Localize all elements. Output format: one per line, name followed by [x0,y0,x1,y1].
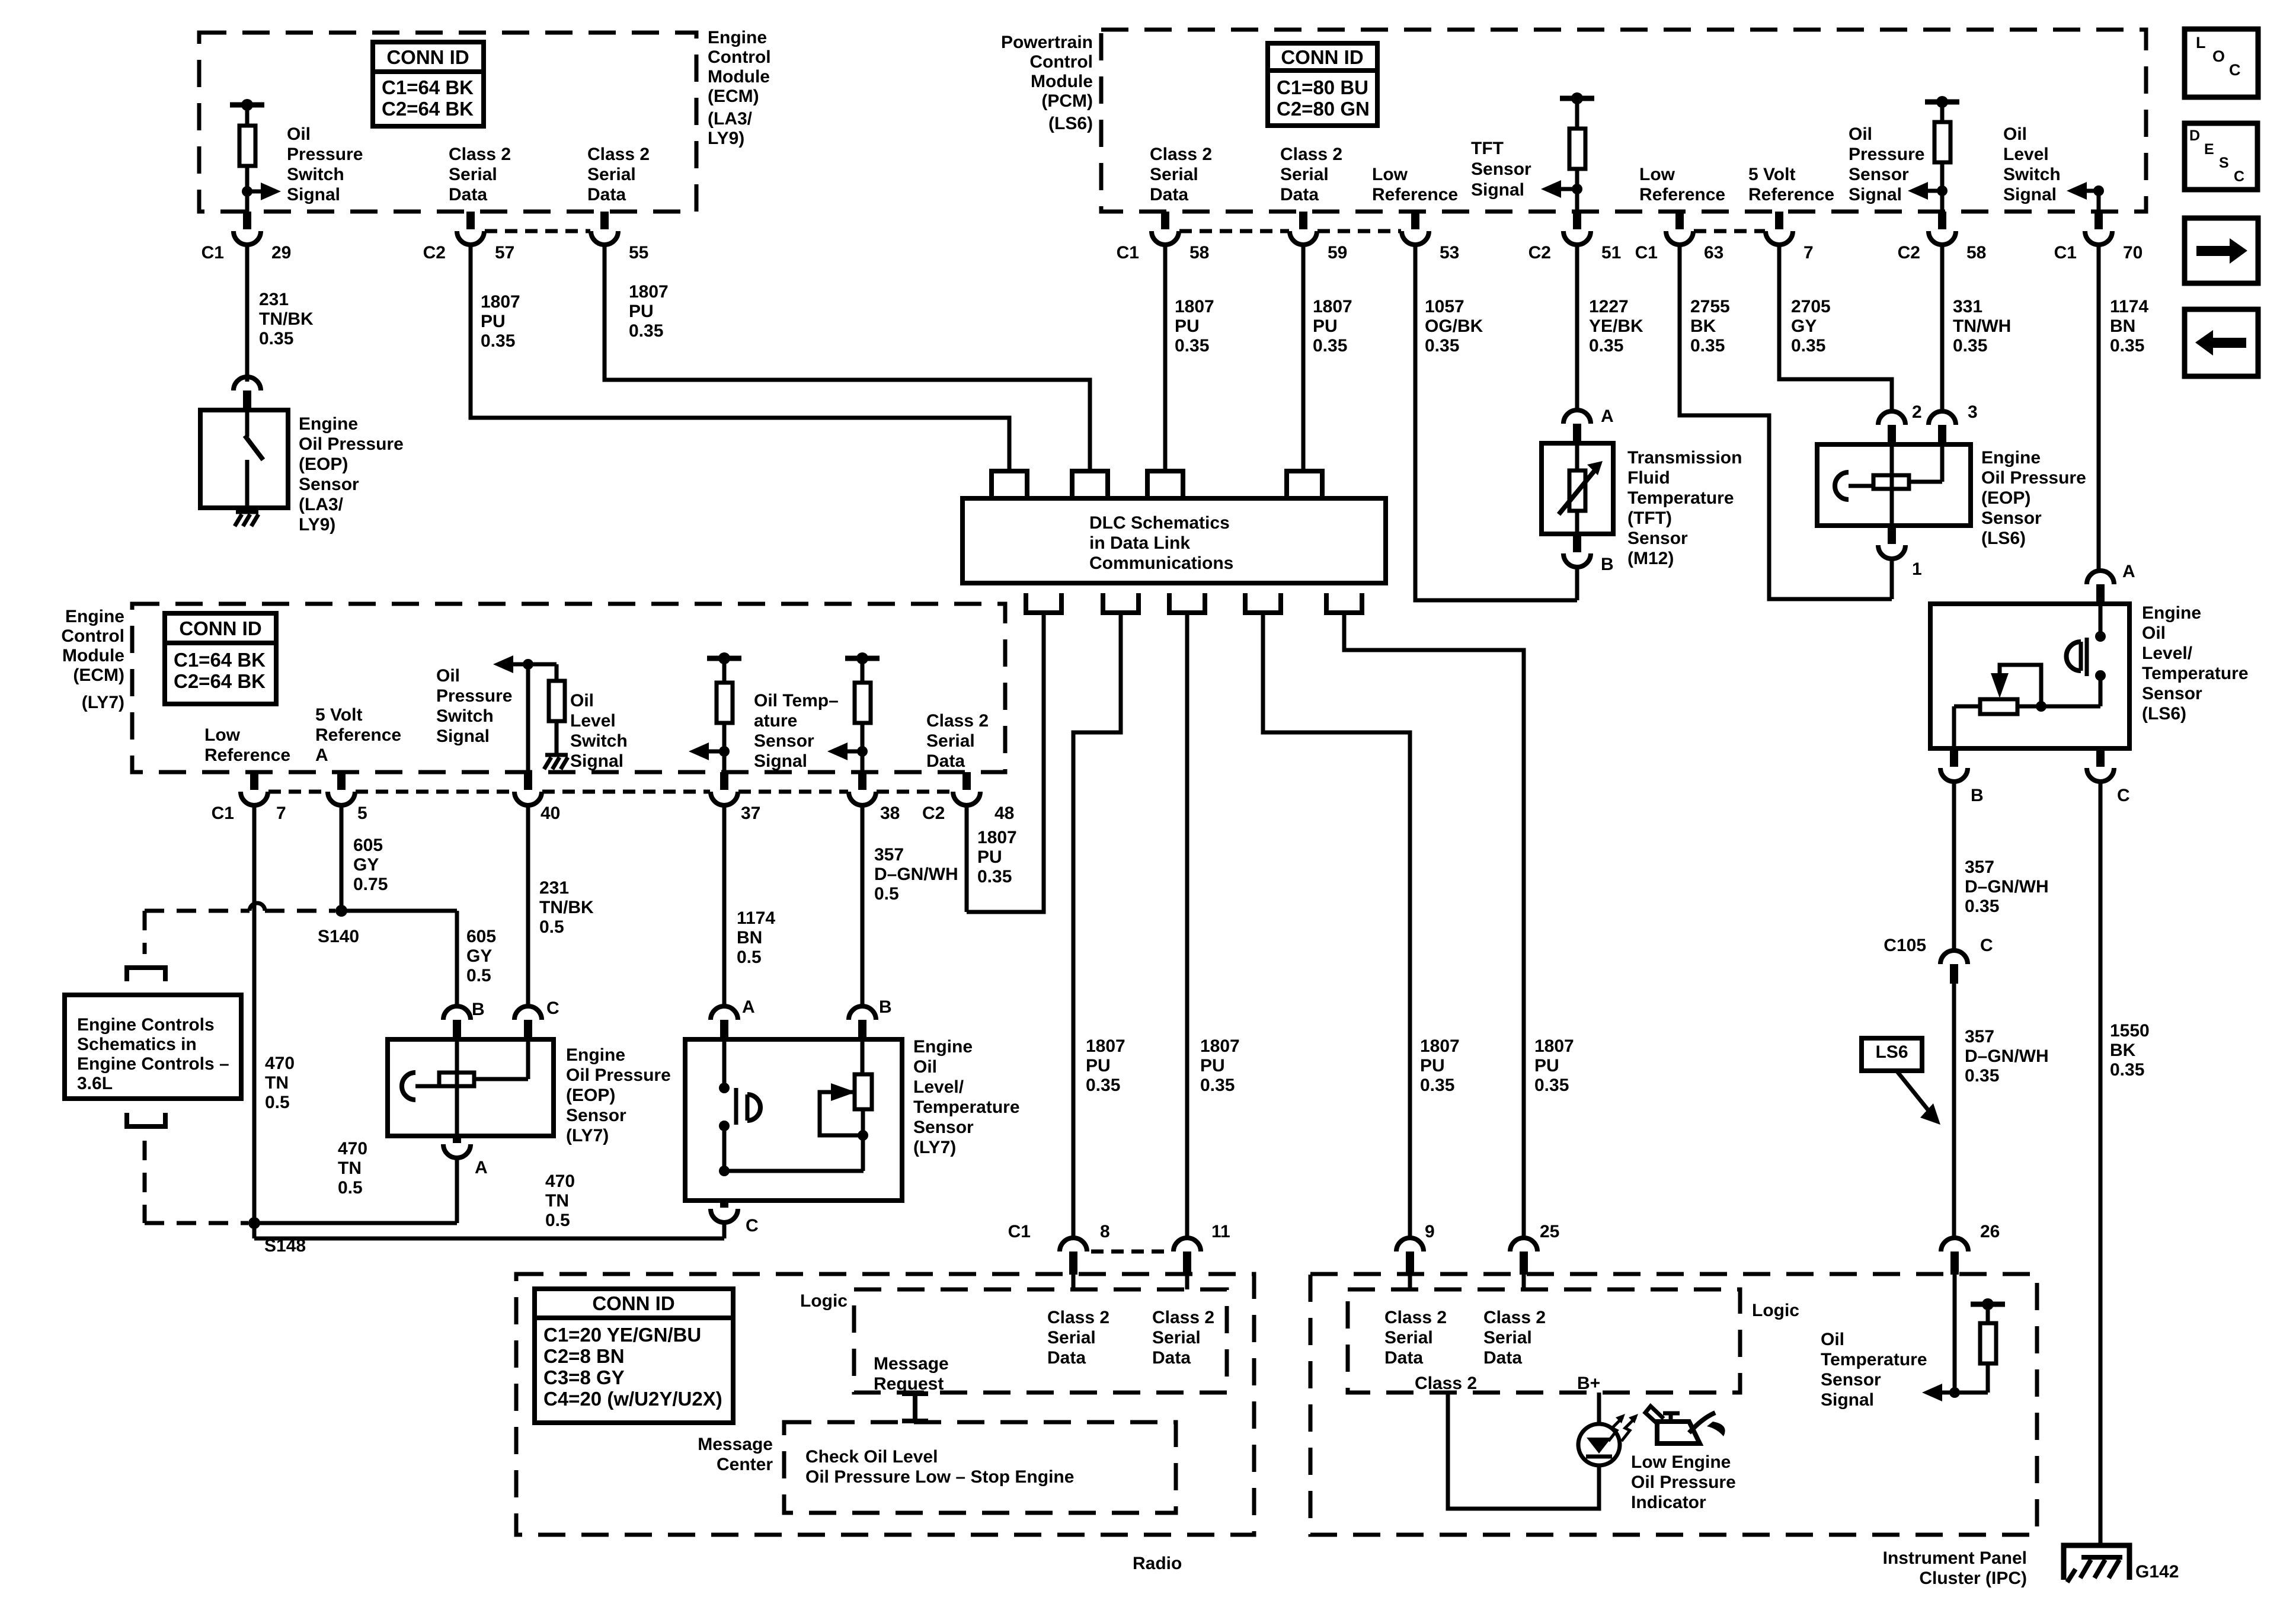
svg-text:25: 25 [1540,1222,1559,1241]
svg-text:7: 7 [276,804,286,823]
svg-text:C3=8 GY: C3=8 GY [543,1366,625,1388]
svg-text:Data: Data [449,185,487,204]
svg-text:Switch: Switch [436,706,494,726]
svg-text:605: 605 [466,927,496,946]
svg-text:PU: PU [1200,1056,1225,1076]
svg-text:Sensor: Sensor [299,475,359,494]
svg-text:C4=20 (w/U2Y/U2X): C4=20 (w/U2Y/U2X) [543,1388,722,1410]
svg-text:Engine Controls –: Engine Controls – [77,1054,229,1074]
svg-text:LY9): LY9) [299,515,335,534]
svg-text:1807: 1807 [1313,297,1352,316]
svg-text:Fluid: Fluid [1627,468,1670,488]
svg-text:C1: C1 [1008,1222,1031,1241]
svg-text:Module: Module [62,646,124,665]
svg-text:(EOP): (EOP) [566,1086,615,1105]
svg-text:PU: PU [1420,1056,1445,1076]
svg-text:Engine: Engine [708,28,767,47]
svg-text:38: 38 [880,804,900,823]
svg-text:Sensor: Sensor [2142,684,2202,703]
svg-text:Data: Data [587,185,626,204]
svg-text:Oil Temp–: Oil Temp– [754,691,839,710]
svg-text:A: A [1601,406,1614,426]
svg-text:Cluster (IPC): Cluster (IPC) [1919,1569,2027,1588]
svg-text:Oil: Oil [1821,1330,1844,1349]
svg-text:B: B [1601,555,1614,574]
svg-text:0.35: 0.35 [977,867,1012,886]
svg-text:TFT: TFT [1471,139,1504,158]
svg-text:Oil Pressure: Oil Pressure [566,1065,671,1085]
svg-text:0.5: 0.5 [338,1178,363,1198]
svg-text:1807: 1807 [1175,297,1214,316]
svg-text:C1: C1 [212,804,234,823]
svg-text:Oil Pressure: Oil Pressure [299,434,404,454]
svg-text:(M12): (M12) [1627,549,1674,568]
svg-text:53: 53 [1440,243,1459,263]
svg-text:Control: Control [708,47,771,67]
svg-text:Level/: Level/ [2142,644,2193,663]
svg-text:C: C [2117,786,2130,805]
svg-text:BN: BN [737,928,762,948]
svg-text:Switch: Switch [287,165,344,184]
svg-text:YE/BK: YE/BK [1589,316,1643,336]
svg-text:1807: 1807 [977,828,1017,847]
svg-text:Control: Control [1029,52,1093,72]
svg-text:O: O [2212,47,2225,65]
svg-text:(LS6): (LS6) [1048,114,1093,133]
svg-text:7: 7 [1803,243,1814,263]
svg-text:S148: S148 [264,1236,306,1256]
svg-text:C1=64 BK: C1=64 BK [382,76,474,98]
svg-text:2755: 2755 [1690,297,1730,316]
svg-text:0.5: 0.5 [545,1211,570,1230]
svg-text:C1=80 BU: C1=80 BU [1277,76,1368,98]
svg-text:Logic: Logic [1752,1301,1799,1320]
svg-text:5 Volt: 5 Volt [315,705,362,725]
svg-text:Sensor: Sensor [1821,1370,1881,1390]
svg-text:C1: C1 [202,243,224,263]
svg-text:(PCM): (PCM) [1041,91,1093,111]
svg-text:C2: C2 [1528,243,1551,263]
svg-text:357: 357 [1965,857,1994,877]
svg-text:0.35: 0.35 [1313,336,1347,356]
svg-text:Sensor: Sensor [566,1106,626,1125]
svg-text:Sensor: Sensor [1849,165,1909,184]
svg-text:Logic: Logic [800,1291,848,1311]
svg-text:(LY7): (LY7) [82,693,124,712]
svg-text:D: D [2189,127,2200,144]
svg-text:Temperature: Temperature [1627,488,1734,508]
svg-text:0.35: 0.35 [1965,1066,1999,1086]
svg-text:1807: 1807 [1200,1036,1240,1056]
svg-text:11: 11 [1211,1222,1230,1241]
svg-text:1174: 1174 [2110,297,2148,316]
svg-text:ature: ature [754,711,797,731]
svg-text:Engine: Engine [2142,603,2201,623]
svg-text:Oil: Oil [913,1057,937,1077]
svg-text:CONN ID: CONN ID [1281,46,1363,68]
svg-text:GY: GY [466,946,492,966]
svg-text:8: 8 [1100,1222,1110,1241]
svg-text:Low: Low [1639,165,1675,184]
svg-text:1807: 1807 [629,282,669,302]
svg-text:Reference: Reference [1639,185,1725,204]
svg-text:2705: 2705 [1791,297,1831,316]
svg-text:1550: 1550 [2110,1021,2150,1041]
svg-text:Serial: Serial [926,731,975,751]
svg-text:Switch: Switch [2003,165,2061,184]
svg-text:PU: PU [977,847,1002,867]
svg-text:A: A [742,997,755,1017]
svg-text:0.35: 0.35 [1534,1076,1569,1095]
svg-text:1057: 1057 [1425,297,1464,316]
svg-text:C1=64 BK: C1=64 BK [174,649,266,671]
svg-text:Oil: Oil [2003,124,2027,144]
svg-text:L: L [2196,34,2206,52]
svg-text:DLC Schematics: DLC Schematics [1089,513,1230,533]
svg-text:TN: TN [265,1073,289,1093]
svg-text:TN: TN [545,1191,569,1211]
svg-text:Oil: Oil [1849,124,1872,144]
svg-text:PU: PU [1313,316,1338,336]
svg-text:Signal: Signal [287,185,340,204]
svg-text:605: 605 [353,836,383,855]
svg-text:D–GN/WH: D–GN/WH [1965,1046,2049,1066]
svg-text:Signal: Signal [754,751,807,771]
svg-text:1807: 1807 [1086,1036,1125,1056]
svg-text:Request: Request [874,1374,944,1394]
svg-text:Sensor: Sensor [1981,508,2042,528]
svg-text:0.35: 0.35 [2110,336,2144,356]
svg-text:C1: C1 [1635,243,1658,263]
svg-text:Module: Module [708,67,770,87]
svg-text:Instrument Panel: Instrument Panel [1883,1548,2027,1568]
svg-text:Communications: Communications [1089,553,1233,573]
svg-text:(LA3/: (LA3/ [299,495,344,514]
svg-text:TN: TN [338,1158,362,1178]
svg-text:Engine Controls: Engine Controls [77,1015,215,1035]
svg-text:0.35: 0.35 [1589,336,1623,356]
svg-text:B: B [879,997,892,1017]
svg-text:C2=64 BK: C2=64 BK [382,98,474,120]
svg-text:Data: Data [926,751,965,771]
svg-text:(LA3/: (LA3/ [708,109,753,129]
svg-text:0.75: 0.75 [353,875,388,894]
svg-text:0.5: 0.5 [737,948,762,967]
svg-text:Sensor: Sensor [1471,159,1531,179]
svg-text:OG/BK: OG/BK [1425,316,1483,336]
svg-text:Engine: Engine [299,414,358,434]
svg-text:231: 231 [259,290,289,309]
svg-text:A: A [2122,562,2135,581]
svg-text:Oil: Oil [436,666,460,686]
svg-text:26: 26 [1980,1222,2000,1241]
svg-text:2: 2 [1912,402,1922,422]
svg-text:Powertrain: Powertrain [1001,33,1093,52]
svg-text:40: 40 [541,804,560,823]
svg-text:(LS6): (LS6) [2142,704,2186,724]
svg-text:LY9): LY9) [708,129,744,148]
svg-text:C: C [746,1216,759,1235]
svg-text:Class 2: Class 2 [926,711,989,731]
svg-text:S140: S140 [318,927,359,946]
svg-text:63: 63 [1704,243,1723,263]
svg-text:55: 55 [629,243,648,263]
svg-text:C2=8 BN: C2=8 BN [543,1345,625,1367]
svg-text:TN/WH: TN/WH [1953,316,2011,336]
svg-text:Engine: Engine [65,607,124,626]
svg-text:Signal: Signal [436,726,490,746]
svg-text:Level: Level [2003,145,2049,164]
svg-text:Control: Control [61,626,124,646]
svg-text:PU: PU [1086,1056,1111,1076]
svg-text:51: 51 [1601,243,1621,263]
svg-text:48: 48 [994,804,1014,823]
svg-text:1174: 1174 [737,908,775,928]
svg-text:C2=64 BK: C2=64 BK [174,670,266,692]
svg-text:37: 37 [741,804,760,823]
svg-text:357: 357 [1965,1027,1994,1046]
svg-text:B: B [472,1000,485,1019]
svg-text:Signal: Signal [570,751,623,771]
svg-text:C2: C2 [922,804,945,823]
svg-text:Center: Center [717,1455,773,1474]
svg-text:C105: C105 [1884,936,1926,955]
svg-text:C: C [2229,61,2241,79]
svg-text:Sensor: Sensor [1627,529,1688,548]
svg-text:Serial: Serial [1150,165,1198,184]
svg-text:Oil Pressure Low – Stop Engine: Oil Pressure Low – Stop Engine [805,1467,1074,1487]
svg-text:Message: Message [874,1354,949,1374]
svg-text:B: B [1971,786,1984,805]
svg-text:PU: PU [481,312,506,331]
svg-text:0.35: 0.35 [259,329,293,348]
svg-text:3: 3 [1968,402,1978,422]
svg-text:Pressure: Pressure [436,686,512,706]
svg-text:C: C [1980,936,1993,955]
svg-text:C: C [546,998,559,1018]
svg-text:BN: BN [2110,316,2135,336]
svg-text:0.5: 0.5 [265,1093,290,1112]
svg-text:1: 1 [1912,559,1922,579]
svg-text:C2: C2 [423,243,446,263]
svg-text:D–GN/WH: D–GN/WH [874,865,958,884]
svg-text:Module: Module [1031,72,1093,91]
svg-text:Temperature: Temperature [1821,1350,1927,1369]
svg-text:Data: Data [1152,1348,1191,1368]
svg-text:C1: C1 [1117,243,1139,263]
svg-text:in Data Link: in Data Link [1089,533,1190,553]
svg-text:Pressure: Pressure [287,145,363,164]
svg-text:TN/BK: TN/BK [539,898,594,917]
svg-text:Radio: Radio [1133,1554,1182,1573]
svg-text:0.35: 0.35 [1175,336,1209,356]
svg-text:Reference: Reference [204,745,290,765]
svg-text:Low Engine: Low Engine [1631,1452,1731,1472]
svg-text:5: 5 [357,804,367,823]
svg-text:Oil: Oil [570,691,594,710]
svg-text:331: 331 [1953,297,1982,316]
svg-text:Message: Message [698,1435,773,1454]
svg-text:0.35: 0.35 [1420,1076,1454,1095]
svg-text:1807: 1807 [1534,1036,1574,1056]
svg-text:Temperature: Temperature [2142,664,2249,683]
svg-text:(LS6): (LS6) [1981,529,2026,548]
svg-text:Signal: Signal [2003,185,2057,204]
svg-text:Class 2: Class 2 [1280,145,1342,164]
svg-text:Reference: Reference [1372,185,1458,204]
svg-text:Class 2: Class 2 [1384,1308,1447,1327]
svg-text:Level/: Level/ [913,1077,964,1097]
svg-text:PU: PU [1175,316,1200,336]
svg-text:Serial: Serial [1280,165,1329,184]
svg-text:Reference: Reference [315,725,401,745]
svg-text:0.35: 0.35 [1690,336,1725,356]
svg-text:Class 2: Class 2 [1152,1308,1214,1327]
svg-text:1227: 1227 [1589,297,1629,316]
svg-text:Check Oil Level: Check Oil Level [805,1447,938,1467]
svg-text:(TFT): (TFT) [1627,508,1672,528]
svg-text:A: A [315,745,328,765]
svg-text:LS6: LS6 [1875,1042,1908,1062]
svg-text:BK: BK [1690,316,1716,336]
svg-text:0.35: 0.35 [1953,336,1987,356]
svg-text:231: 231 [539,878,569,898]
svg-text:Oil Pressure: Oil Pressure [1981,468,2086,488]
svg-text:S: S [2219,155,2229,171]
svg-text:0.5: 0.5 [874,884,899,904]
svg-text:Signal: Signal [1471,180,1524,200]
svg-text:PU: PU [1534,1056,1559,1076]
svg-text:59: 59 [1328,243,1347,263]
svg-text:Engine: Engine [913,1037,973,1057]
svg-text:(ECM): (ECM) [73,665,124,685]
svg-text:(LY7): (LY7) [913,1138,956,1157]
svg-text:Serial: Serial [449,165,497,184]
svg-text:D–GN/WH: D–GN/WH [1965,877,2049,897]
svg-text:58: 58 [1189,243,1209,263]
svg-text:TN/BK: TN/BK [259,309,314,329]
svg-text:357: 357 [874,845,904,865]
svg-text:Serial: Serial [1047,1328,1096,1347]
svg-text:1807: 1807 [481,292,520,312]
svg-text:Class 2: Class 2 [1415,1374,1477,1393]
svg-text:0.5: 0.5 [466,966,491,985]
svg-text:C2=80 GN: C2=80 GN [1277,98,1370,120]
svg-text:Serial: Serial [1152,1328,1201,1347]
svg-text:CONN ID: CONN ID [592,1292,674,1314]
svg-text:GY: GY [353,855,379,875]
svg-text:Serial: Serial [1384,1328,1433,1347]
svg-text:Class 2: Class 2 [1150,145,1212,164]
svg-text:Serial: Serial [587,165,636,184]
svg-text:0.35: 0.35 [1965,897,1999,916]
svg-text:Transmission: Transmission [1627,448,1742,468]
svg-text:BK: BK [2110,1041,2136,1060]
svg-text:GY: GY [1791,316,1817,336]
svg-text:0.35: 0.35 [629,321,663,341]
svg-text:C: C [2234,168,2244,185]
svg-text:1807: 1807 [1420,1036,1460,1056]
svg-text:C1=20 YE/GN/BU: C1=20 YE/GN/BU [543,1324,701,1346]
svg-text:Class 2: Class 2 [587,145,650,164]
svg-text:Sensor: Sensor [754,731,814,751]
svg-text:0.35: 0.35 [481,331,515,351]
svg-text:Oil: Oil [2142,623,2166,643]
svg-text:Engine: Engine [566,1045,625,1065]
svg-text:Class 2: Class 2 [449,145,511,164]
svg-text:(LY7): (LY7) [566,1126,609,1145]
svg-text:70: 70 [2123,243,2142,263]
svg-text:9: 9 [1425,1222,1435,1241]
svg-text:0.5: 0.5 [539,917,564,937]
svg-text:Data: Data [1384,1348,1423,1368]
svg-text:G142: G142 [2135,1562,2179,1582]
svg-text:Schematics in: Schematics in [77,1035,197,1054]
svg-text:CONN ID: CONN ID [386,46,469,68]
svg-text:Data: Data [1047,1348,1086,1368]
svg-text:(ECM): (ECM) [708,87,759,106]
svg-text:Serial: Serial [1483,1328,1532,1347]
svg-text:0.35: 0.35 [2110,1060,2144,1080]
svg-text:CONN ID: CONN ID [179,617,261,639]
svg-text:Class 2: Class 2 [1483,1308,1546,1327]
svg-text:Data: Data [1280,185,1319,204]
svg-text:57: 57 [495,243,514,263]
svg-text:Level: Level [570,711,616,731]
svg-text:PU: PU [629,302,654,321]
svg-text:C1: C1 [2054,243,2077,263]
svg-text:E: E [2204,141,2214,158]
svg-text:(EOP): (EOP) [1981,488,2030,508]
svg-text:0.35: 0.35 [1086,1076,1120,1095]
svg-text:Pressure: Pressure [1849,145,1924,164]
svg-text:29: 29 [271,243,291,263]
svg-text:Data: Data [1483,1348,1522,1368]
svg-text:B+: B+ [1577,1374,1600,1393]
svg-text:Temperature: Temperature [913,1097,1020,1117]
svg-text:0.35: 0.35 [1200,1076,1235,1095]
svg-text:Engine: Engine [1981,448,2041,468]
svg-text:Signal: Signal [1849,185,1902,204]
svg-text:470: 470 [265,1054,295,1073]
svg-text:Low: Low [1372,165,1408,184]
svg-text:58: 58 [1966,243,1986,263]
svg-text:Oil Pressure: Oil Pressure [1631,1473,1736,1492]
svg-text:A: A [475,1158,488,1177]
svg-text:0.35: 0.35 [1425,336,1459,356]
svg-text:0.35: 0.35 [1791,336,1825,356]
svg-text:Low: Low [204,725,241,745]
svg-text:Signal: Signal [1821,1390,1874,1410]
svg-text:3.6L: 3.6L [77,1074,113,1093]
svg-text:470: 470 [338,1139,367,1158]
svg-text:5 Volt: 5 Volt [1748,165,1795,184]
svg-text:(EOP): (EOP) [299,454,348,474]
svg-text:Oil: Oil [287,124,311,144]
svg-text:Reference: Reference [1748,185,1834,204]
svg-text:C2: C2 [1898,243,1920,263]
svg-text:Switch: Switch [570,731,628,751]
svg-text:Sensor: Sensor [913,1118,974,1137]
svg-text:Class 2: Class 2 [1047,1308,1109,1327]
svg-text:Data: Data [1150,185,1188,204]
svg-text:470: 470 [545,1172,575,1191]
svg-text:Indicator: Indicator [1631,1493,1706,1512]
